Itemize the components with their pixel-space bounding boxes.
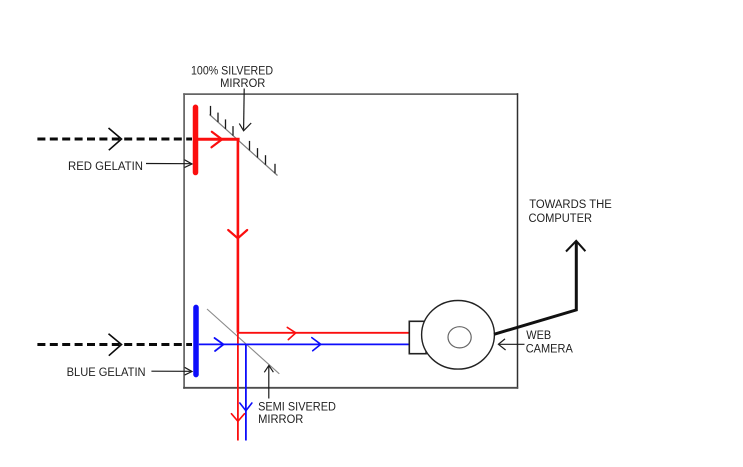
svg-text:CAMERA: CAMERA: [526, 344, 573, 356]
svg-text:COMPUTER: COMPUTER: [529, 213, 593, 225]
svg-text:MIRROR: MIRROR: [220, 78, 265, 90]
svg-text:BLUE GELATIN: BLUE GELATIN: [67, 367, 146, 379]
svg-text:100% SILVERED: 100% SILVERED: [191, 65, 273, 77]
svg-text:TOWARDS THE: TOWARDS THE: [529, 199, 612, 211]
svg-text:RED GELATIN: RED GELATIN: [68, 161, 143, 173]
svg-text:WEB: WEB: [526, 330, 551, 342]
svg-text:MIRROR: MIRROR: [258, 414, 303, 426]
svg-text:SEMI SIVERED: SEMI SIVERED: [258, 402, 336, 414]
